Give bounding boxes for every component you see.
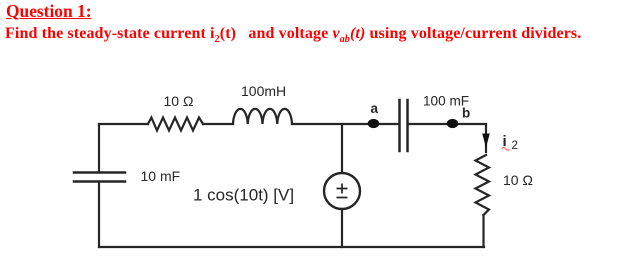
resistor R2 zigzag vertical <box>476 155 490 215</box>
wire source bottom leg <box>341 209 343 247</box>
svg-text:1 cos(10t) [V]: 1 cos(10t) [V] <box>193 186 294 205</box>
svg-text:100mH: 100mH <box>241 83 286 99</box>
problem statement <box>5 25 581 45</box>
wire capacitor-to-corner <box>409 123 487 125</box>
svg-text:2: 2 <box>512 140 518 152</box>
wire resistor-to-inductor <box>203 123 233 125</box>
title Question 1 <box>6 1 92 22</box>
wire right vertical upper <box>485 124 487 152</box>
plus-minus symbol in source <box>337 184 348 198</box>
node b dot <box>447 119 459 128</box>
wire source top leg <box>341 124 343 173</box>
resistor R-top zigzag <box>148 118 203 131</box>
svg-text:10 mF: 10 mF <box>141 168 181 184</box>
inductor L1 100mH <box>233 109 292 124</box>
svg-text:10 Ω: 10 Ω <box>503 172 533 188</box>
wire left vertical lower <box>98 183 100 248</box>
wire left vertical upper <box>98 124 100 172</box>
red squiggle under i <box>502 148 510 151</box>
svg-text:10 Ω: 10 Ω <box>164 93 194 109</box>
wire top-left segment <box>99 123 148 125</box>
node a dot <box>368 119 380 128</box>
svg-text:a: a <box>371 101 379 116</box>
source V1 circle <box>324 173 360 209</box>
svg-text:b: b <box>462 106 470 121</box>
capacitor C2 100mF plates <box>400 100 408 151</box>
wire bottom <box>99 246 484 248</box>
current arrow i2 <box>482 134 490 148</box>
wire right vertical lower <box>482 215 484 247</box>
wire inductor-to-capacitor <box>292 123 399 125</box>
capacitor C1 10mF plates <box>74 173 125 182</box>
